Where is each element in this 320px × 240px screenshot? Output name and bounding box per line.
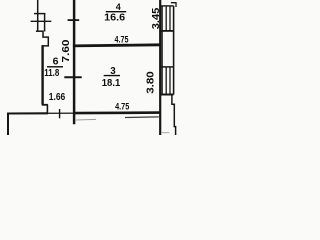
top-right wall bracket <box>171 3 176 7</box>
dimension tick upper <box>68 19 80 21</box>
window W3 left wall: right jamb line <box>44 13 46 32</box>
wall A rooms 4/3 divider <box>73 45 161 46</box>
svg-text:4.75: 4.75 <box>115 35 129 45</box>
window W2 right edge <box>173 67 175 95</box>
window W2 left edge <box>161 67 163 95</box>
window W1 right edge <box>173 6 175 31</box>
svg-text:4: 4 <box>116 2 121 12</box>
svg-text:7.60: 7.60 <box>61 39 72 63</box>
wall notch step of room 6 <box>42 31 49 46</box>
window W3 top rung <box>34 13 45 15</box>
bottom-left room west wall <box>7 113 9 135</box>
pier between windows outer line <box>173 31 175 67</box>
dimension tick on threshold <box>59 109 61 118</box>
window W2 top cap <box>160 66 173 68</box>
svg-text:6: 6 <box>53 55 59 67</box>
svg-text:16.6: 16.6 <box>104 13 125 24</box>
wall below window W2 outer steps <box>172 95 176 136</box>
room 4 underline <box>106 11 126 13</box>
second wall line right portion <box>125 116 159 119</box>
room 3 underline <box>104 75 120 77</box>
window W1 bottom cap <box>160 30 173 32</box>
right exterior wall inner line <box>159 0 161 135</box>
svg-text:11.8: 11.8 <box>44 68 59 79</box>
svg-text:4.75: 4.75 <box>115 101 129 111</box>
wall left-exterior top segment <box>37 0 39 32</box>
svg-text:3.45: 3.45 <box>151 7 162 29</box>
window W1 top cap <box>160 5 173 7</box>
door jamb top <box>42 104 48 106</box>
room 6 underline <box>47 66 63 68</box>
main interior wall (vertical) <box>73 0 76 124</box>
window W1 left edge <box>161 6 163 31</box>
svg-text:3.80: 3.80 <box>146 71 157 94</box>
window W2 mid pane 1 <box>165 67 167 95</box>
faint sill mark bottom right <box>162 132 170 134</box>
svg-text:18.1: 18.1 <box>102 78 121 89</box>
wall B left part (bottom room top wall) <box>7 112 48 114</box>
wall B right part <box>74 111 161 114</box>
window W2 mid pane 2 <box>169 67 171 95</box>
window W1 mid pane 1 <box>165 6 167 31</box>
faint parallel line under wall B <box>76 118 96 121</box>
wall room6 left <box>41 45 43 104</box>
window W3 bottom rung <box>36 30 44 32</box>
dimension tick across left window <box>31 20 52 22</box>
door threshold <box>48 112 74 114</box>
svg-text:1.66: 1.66 <box>49 92 66 103</box>
window W1 mid pane 2 <box>169 6 171 31</box>
dimension tick middle <box>64 76 81 78</box>
door jamb right <box>46 105 48 114</box>
pier between windows left line <box>161 31 163 67</box>
window W2 bottom cap <box>160 94 173 96</box>
